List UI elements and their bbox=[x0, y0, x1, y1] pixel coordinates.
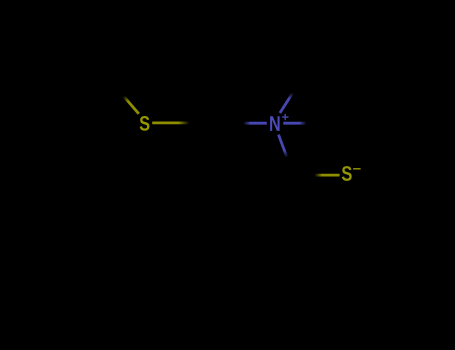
node S1: thioether sulfur label "S" bbox=[140, 116, 150, 131]
node N1: ammonium nitrogen label "N" bbox=[270, 116, 280, 131]
wire: bond CH3-S, sulfur half (olive), fades toward carbon bbox=[124, 96, 139, 114]
node S2: thiolate sulfur label "S" bbox=[342, 166, 352, 181]
wire: bond N-CH3 (up-right), nitrogen half (blue), fades toward carbon bbox=[280, 93, 293, 113]
wire: bond S-CH2, sulfur half (olive), fades toward carbon bbox=[152, 122, 189, 125]
node N1 charge: plus sign bbox=[282, 114, 288, 120]
node S2 charge: minus sign bbox=[353, 168, 361, 170]
wire: bond N-CH3 (right), nitrogen half (blue), fades toward carbon bbox=[283, 122, 306, 125]
wire: bond CH2-S(-), sulfur half (olive), fades toward carbon bbox=[315, 174, 340, 177]
wire: bond N-CH2 (down-right), nitrogen half (blue), fades toward carbon bbox=[279, 135, 288, 158]
wire: bond CH2-N, nitrogen half (blue), fades toward carbon bbox=[243, 122, 267, 125]
